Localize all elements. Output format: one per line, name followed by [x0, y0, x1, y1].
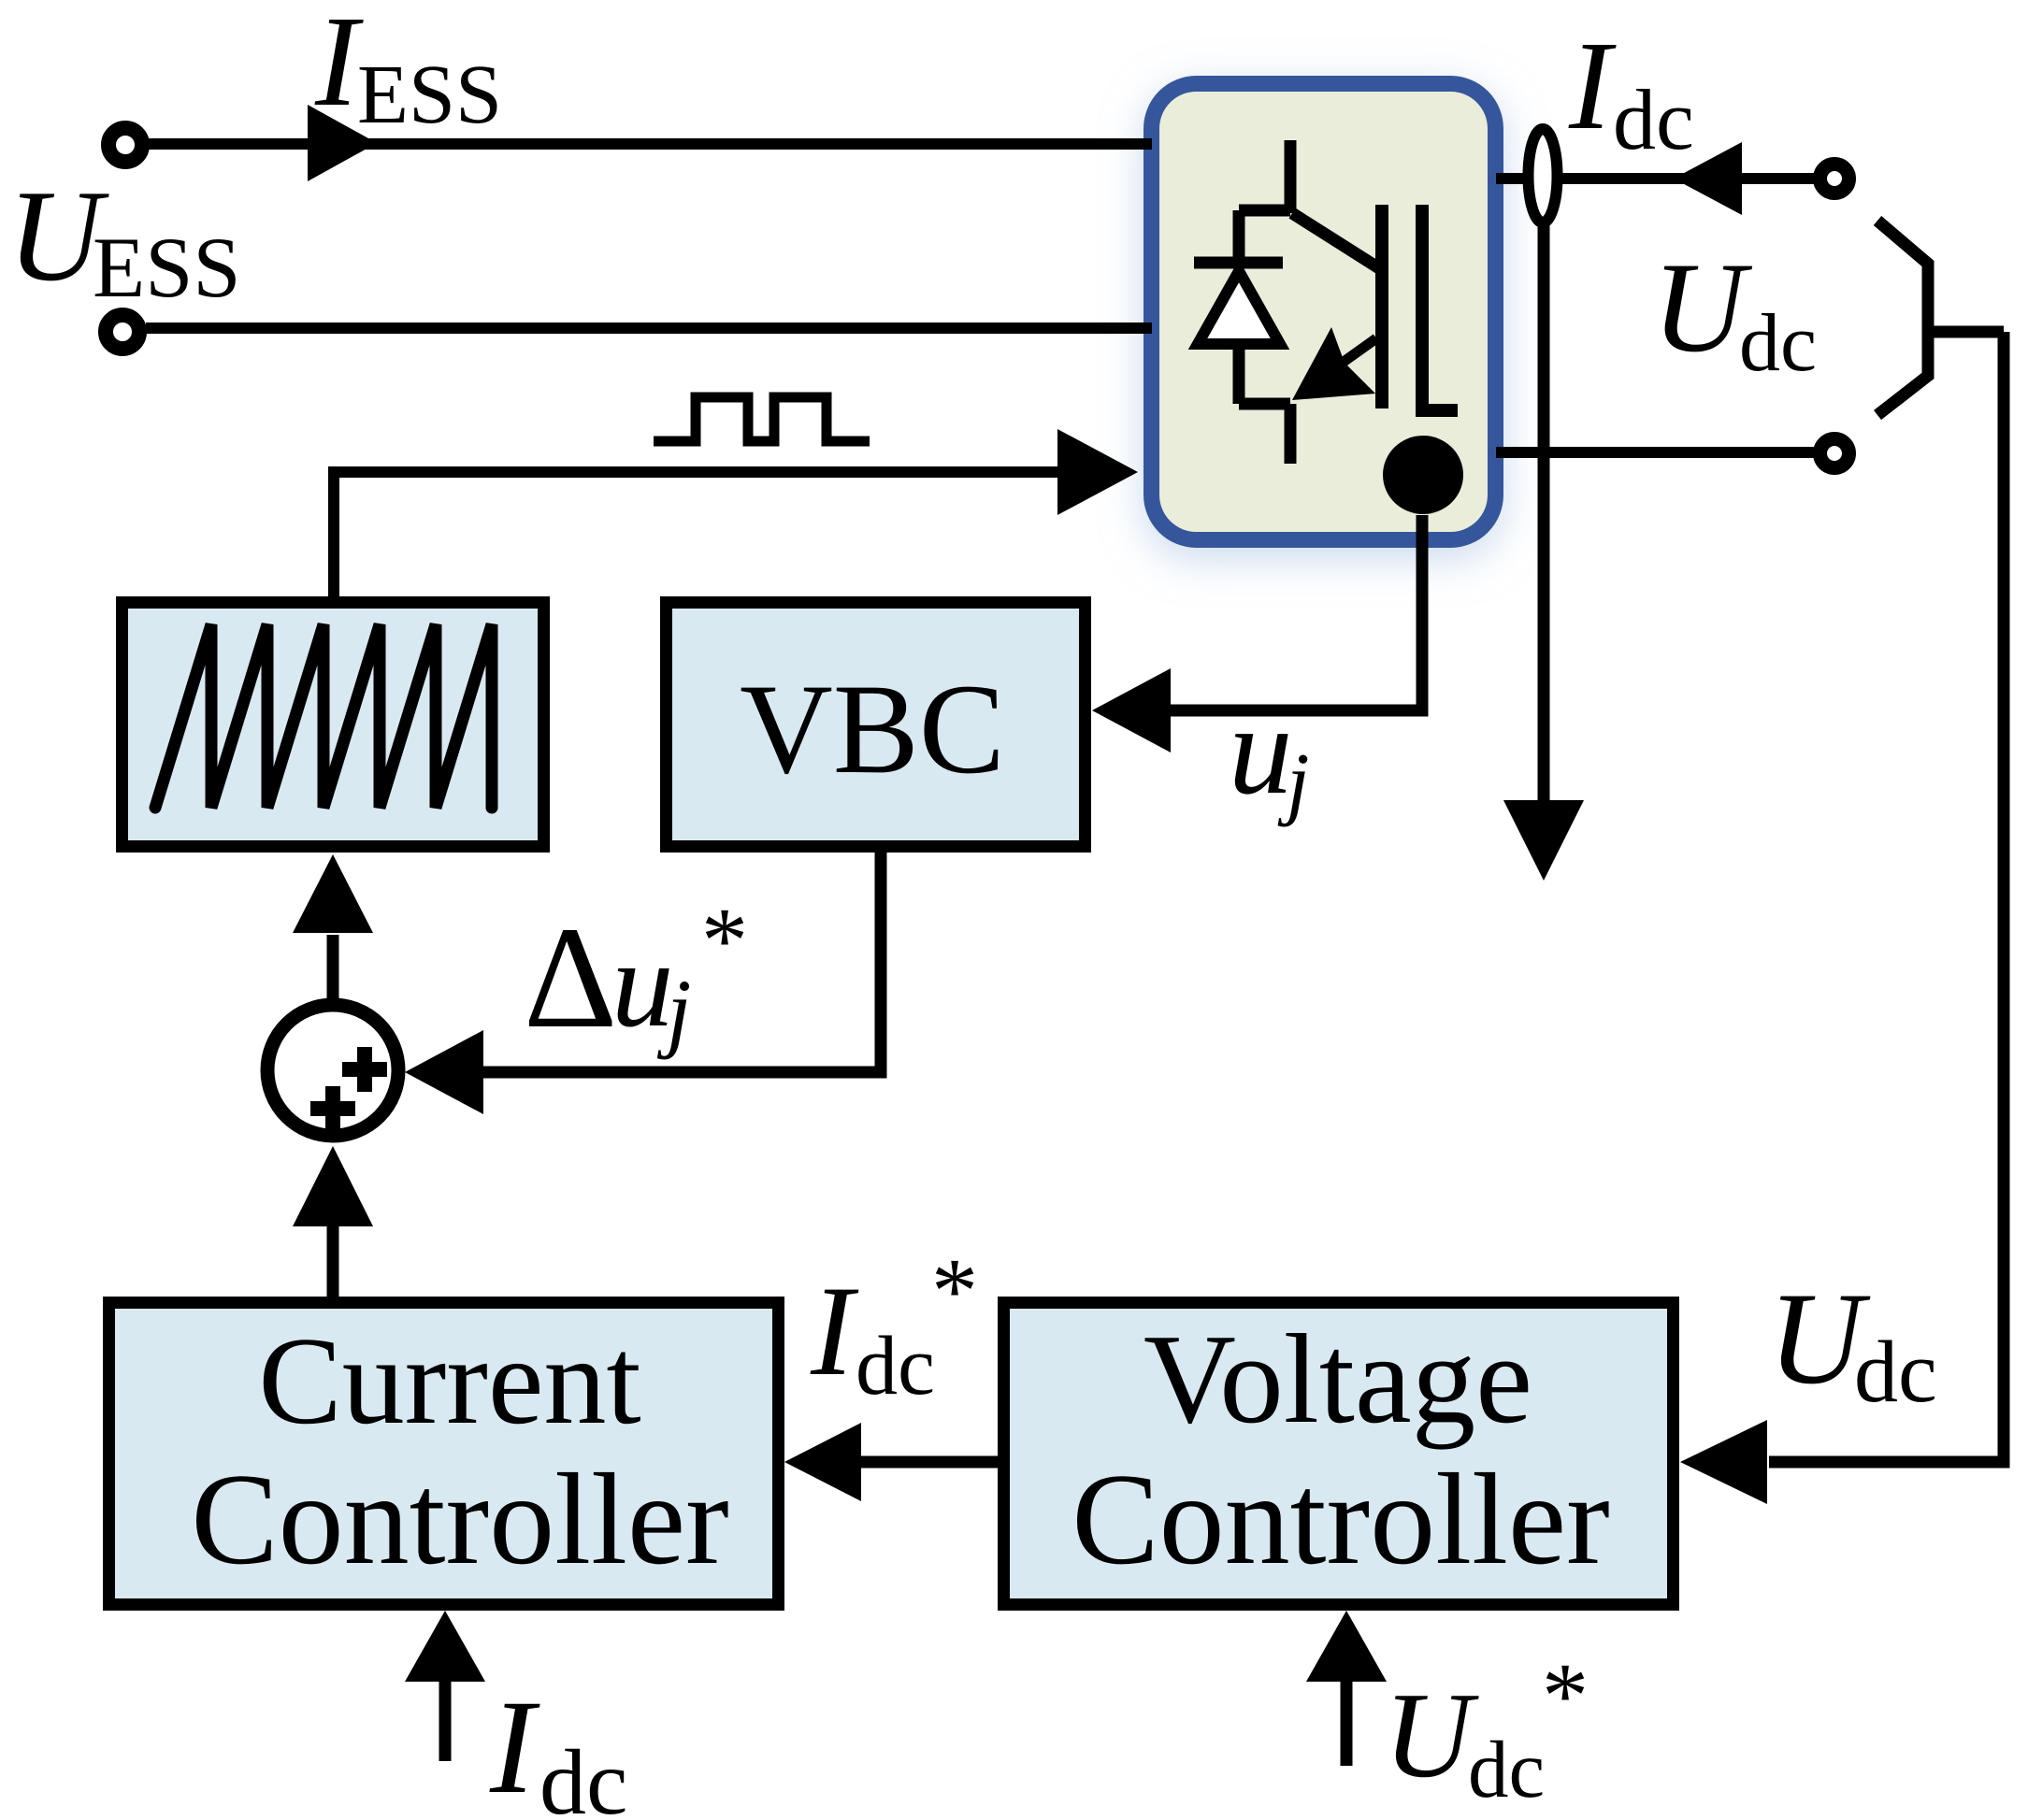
converter block (IGBT chopper module): [1152, 84, 1496, 540]
svg-text:Controller: Controller: [191, 1447, 728, 1592]
arrowhead U_dc* input: [1306, 1611, 1387, 1682]
PWM pulse symbol: [654, 397, 870, 441]
arrowhead down: [1503, 800, 1584, 881]
svg-text:I: I: [489, 1673, 540, 1820]
current sensor ellipse: [1529, 129, 1558, 222]
terminal circle dc-: [1820, 439, 1849, 468]
arrowhead into sawtooth: [293, 854, 373, 933]
diode anode lead: [1233, 344, 1245, 404]
summing junction: [267, 1005, 398, 1136]
svg-text:dc: dc: [856, 1320, 935, 1412]
sawtooth carrier block: [122, 603, 544, 847]
svg-text:Voltage: Voltage: [1143, 1308, 1532, 1450]
wire I_dc measurement drop: [1538, 224, 1550, 804]
terminal circle ESS-: [106, 315, 139, 349]
IGBT collector lead: [1285, 140, 1297, 213]
svg-text:dc: dc: [1739, 298, 1817, 389]
svg-text:I: I: [810, 1259, 859, 1402]
arrow Delta u_j*: [405, 1030, 483, 1114]
VBC block: [667, 603, 1086, 847]
wire I_dc* (VC to CC): [861, 1456, 998, 1469]
svg-text:Current: Current: [258, 1311, 640, 1450]
IGBT emitter arrow: [1337, 338, 1376, 366]
wire u_j (dot to VBC): [1171, 515, 1422, 710]
svg-text:dc: dc: [1854, 1324, 1937, 1421]
svg-text:dc: dc: [539, 1730, 627, 1820]
arrow u_j: [1092, 668, 1171, 752]
IGBT gate diagonal: [1292, 213, 1379, 268]
svg-text:ESS: ESS: [93, 220, 241, 315]
IGBT emitter lead: [1285, 404, 1297, 464]
svg-text:U: U: [1652, 236, 1753, 379]
arrowhead I_dc input: [405, 1611, 485, 1682]
wire I_ESS: [149, 138, 1152, 150]
IGBT bottom bar: [1239, 398, 1290, 410]
switch bracket: [1877, 221, 1928, 415]
wire current controller to summing: [327, 1224, 339, 1299]
wire U_ESS: [146, 322, 1152, 334]
svg-text:ESS: ESS: [357, 49, 502, 141]
svg-text:*: *: [1542, 1643, 1589, 1747]
svg-text:I: I: [1568, 16, 1617, 156]
arrow I_dc: [1674, 142, 1742, 215]
sawtooth waveform: [155, 624, 492, 808]
plus right: [342, 1047, 387, 1092]
svg-text:u: u: [1229, 679, 1293, 821]
svg-text:u: u: [611, 914, 674, 1053]
arrowhead into summing: [293, 1146, 373, 1226]
voltage controller block: [1004, 1303, 1674, 1605]
svg-text:dc: dc: [1468, 1724, 1545, 1814]
wire Delta u_j* (VBC to summing): [483, 853, 881, 1072]
switch tap wire: [1928, 326, 2004, 338]
wire U_dc* input: [1341, 1679, 1353, 1766]
wire dc-: [1496, 447, 1815, 458]
current controller block: [109, 1303, 779, 1605]
svg-text:VBC: VBC: [740, 657, 1005, 800]
arrow I_dc*: [784, 1423, 861, 1501]
wire summing to sawtooth: [327, 935, 339, 998]
IGBT left connector: [1233, 210, 1245, 263]
svg-text:dc: dc: [1613, 72, 1694, 167]
plus bottom: [310, 1086, 355, 1131]
diode cathode bar: [1194, 257, 1283, 269]
svg-text:U: U: [1384, 1668, 1479, 1803]
svg-text:Controller: Controller: [1072, 1447, 1609, 1592]
converter output dot: [1383, 436, 1463, 514]
arrow I_ESS: [308, 105, 377, 181]
PWM gate wire: [334, 472, 1062, 596]
IGBT top bar: [1239, 205, 1290, 217]
svg-text:Δ: Δ: [524, 896, 617, 1058]
svg-text:*: *: [701, 888, 748, 992]
IGBT right vertical bar with hook: [1422, 205, 1458, 410]
diode triangle: [1198, 271, 1280, 344]
terminal circle ESS+: [108, 128, 142, 162]
PWM arrowhead: [1057, 429, 1138, 515]
IGBT left vertical bar: [1375, 205, 1388, 408]
svg-text:*: *: [931, 1239, 978, 1342]
arrow into voltage controller: [1680, 1420, 1767, 1504]
terminal circle dc+: [1820, 165, 1849, 193]
wire I_dc input: [439, 1679, 452, 1761]
wire U_dc feedback: [1769, 332, 2004, 1462]
wire I_dc top: [1496, 173, 1815, 184]
